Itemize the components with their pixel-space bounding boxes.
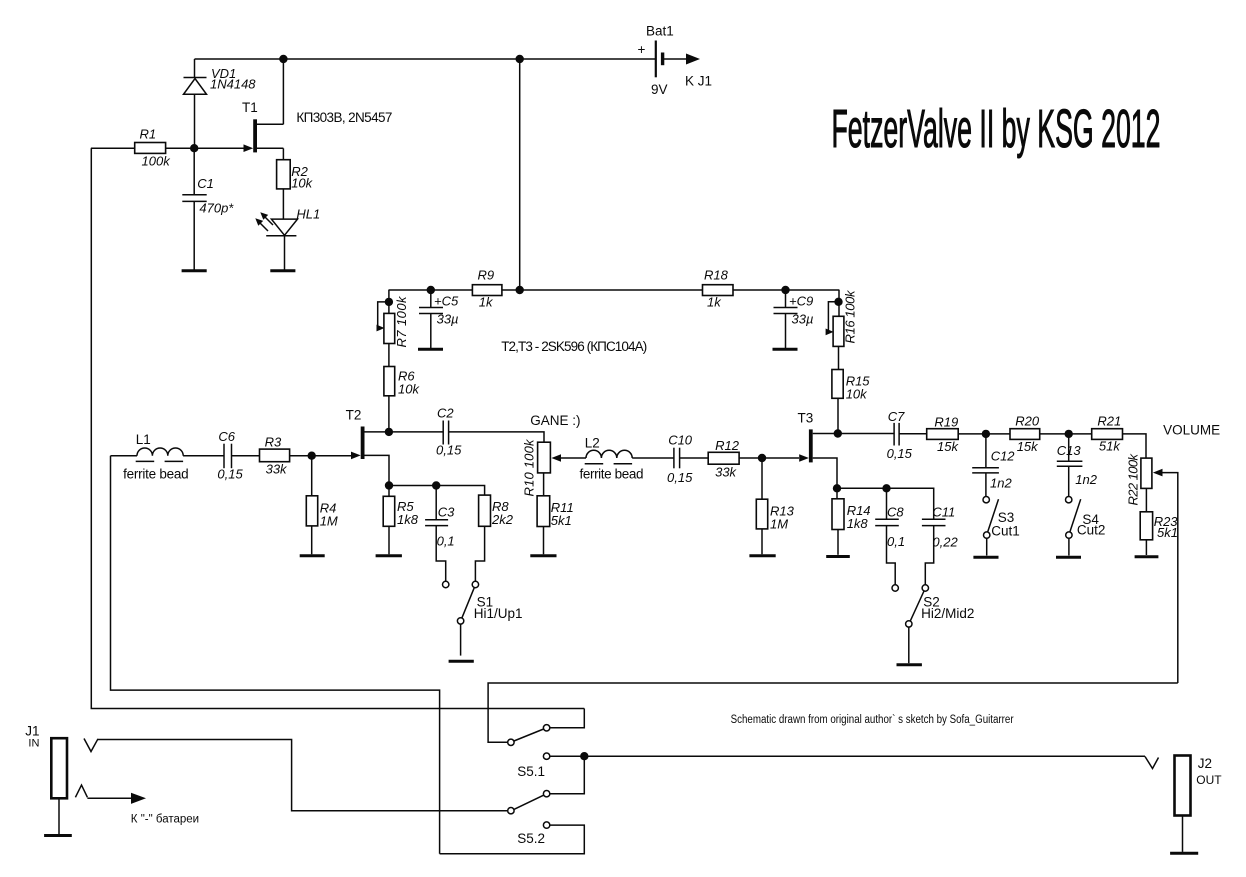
svg-text:HL1: HL1 [296, 207, 320, 222]
svg-text:0,22: 0,22 [932, 535, 958, 550]
ground below R23 [1135, 555, 1159, 558]
resistor R13 1M [756, 458, 794, 554]
svg-text:0,15: 0,15 [887, 446, 913, 461]
wire T3 source row y=488.3 [837, 488, 934, 519]
ground below R4 [300, 554, 325, 557]
wire J1 tip to S5.2 [98, 740, 508, 811]
svg-text:FetzerValve II by KSG 2012: FetzerValve II by KSG 2012 [832, 99, 1161, 159]
capacitor C1 470p* [182, 148, 234, 270]
svg-text:L1: L1 [136, 432, 151, 447]
svg-text:C7: C7 [888, 409, 905, 424]
node junction T1 drain on top rail [279, 55, 287, 63]
switch S2 Hi2/Mid2 [892, 585, 974, 663]
capacitor C5 33u polar [419, 286, 459, 348]
svg-text:R22 100k: R22 100k [1126, 453, 1141, 506]
switch S5.1 [508, 709, 585, 797]
ground below S1 [449, 660, 474, 663]
switch S5.2 [440, 795, 585, 854]
ground below R5 [376, 554, 402, 557]
svg-text:C8: C8 [887, 505, 904, 520]
svg-text:R18: R18 [704, 268, 729, 283]
wire input line to L1 [111, 455, 138, 457]
node junction R12/R13/gate [758, 454, 766, 462]
node junction R7 hook [385, 298, 393, 306]
svg-text:470p*: 470p* [199, 201, 234, 216]
svg-text:1n2: 1n2 [990, 475, 1012, 490]
svg-text:R3: R3 [265, 435, 282, 450]
svg-text:5k1: 5k1 [1157, 525, 1178, 540]
svg-text:9V: 9V [651, 82, 668, 97]
svg-text:R21: R21 [1097, 414, 1121, 429]
capacitor C13 1n2 [1057, 434, 1098, 497]
svg-text:2k2: 2k2 [491, 512, 514, 527]
resistor R9 1k [472, 268, 502, 310]
svg-text:0,15: 0,15 [667, 470, 693, 485]
svg-text:1k: 1k [707, 295, 722, 310]
resistor R19 15k [927, 415, 960, 455]
transistor T3 JFET [798, 411, 895, 489]
svg-text:33µ: 33µ [437, 312, 459, 327]
node junction R6/drain [385, 428, 393, 436]
node junction C12 [982, 430, 990, 438]
inductor L1 ferrite bead [123, 432, 189, 482]
svg-text:Bat1: Bat1 [646, 24, 674, 39]
svg-text:R10 100k: R10 100k [522, 438, 537, 497]
wire R21 to R22 [1123, 434, 1147, 458]
wire top power rail y=59 [195, 58, 656, 60]
wire volume wiper run y=683 to S5.1 [488, 683, 1178, 742]
wire T2 source row y=485.5 [389, 486, 485, 496]
svg-text:C2: C2 [437, 406, 454, 421]
jack J1 IN [25, 724, 98, 834]
wire R2 to HL1 [282, 189, 284, 219]
svg-text:1N4148: 1N4148 [210, 77, 256, 92]
ground below C9 [773, 348, 798, 351]
node junction C8 top [882, 484, 890, 492]
svg-text:K J1: K J1 [685, 74, 712, 89]
svg-text:Hi2/Mid2: Hi2/Mid2 [921, 606, 974, 621]
svg-text:C10: C10 [668, 432, 693, 447]
node junction C3 top [432, 481, 440, 489]
svg-text:R9: R9 [478, 268, 495, 283]
svg-text:C6: C6 [218, 429, 235, 444]
capacitor C8 0,1 [875, 488, 905, 585]
svg-text:Cut2: Cut2 [1077, 523, 1106, 538]
wire battery output arrow to K J1 [664, 54, 712, 89]
svg-text:T2: T2 [346, 407, 362, 422]
resistor R6 10k [384, 344, 421, 432]
svg-text:10k: 10k [398, 382, 420, 397]
capacitor C10 0,15 [632, 432, 708, 485]
resistor R2 10k [277, 160, 314, 191]
ground below R14 [826, 555, 850, 558]
node junction R1/C1/gate [190, 144, 198, 152]
resistor R15 10k [832, 346, 870, 433]
svg-text:33k: 33k [266, 462, 288, 477]
wire J1 ring to battery minus arrow [87, 793, 199, 826]
node junction C13 [1065, 430, 1073, 438]
svg-text:51k: 51k [1099, 439, 1121, 454]
svg-text:S5.2: S5.2 [517, 831, 545, 846]
transistor T2 JFET [346, 407, 444, 485]
resistor R20 15k [1010, 414, 1040, 454]
svg-text:+C5: +C5 [434, 294, 459, 309]
svg-text:R12: R12 [715, 438, 740, 453]
svg-text:L2: L2 [585, 436, 600, 451]
capacitor C3 0,1 [425, 486, 455, 582]
resistor R3 33k [260, 435, 290, 477]
jack J2 OUT [1145, 756, 1222, 852]
node junction R16 hook [834, 298, 842, 306]
svg-text:C11: C11 [932, 505, 955, 520]
resistor R1 100k [91, 127, 171, 169]
svg-text:+C9: +C9 [789, 294, 813, 309]
wire R12 to T3 gate [739, 457, 799, 459]
svg-text:100k: 100k [142, 154, 172, 169]
resistor R12 33k [708, 438, 740, 479]
wire input vertical and y=690 run [111, 456, 440, 854]
ground below C1 [182, 269, 207, 272]
ground below S3 [973, 556, 998, 559]
node junction source/R5 [385, 481, 393, 489]
wire R1 feedback vertical x=91.3 down to S5 area [91, 148, 584, 708]
transistor T1 JFET [242, 59, 283, 160]
svg-text:VOLUME: VOLUME [1163, 423, 1220, 438]
resistor R11 5k1 [537, 473, 574, 554]
svg-text:Cut1: Cut1 [991, 524, 1020, 539]
svg-text:C12: C12 [991, 449, 1016, 464]
wire second rail y=290 [389, 289, 840, 291]
capacitor C9 33u polar [774, 286, 814, 348]
svg-text:33µ: 33µ [792, 312, 814, 327]
resistor R14 1k8 [832, 488, 871, 555]
node junction S5.1 common [580, 752, 588, 760]
wire R1 to T1 gate [166, 147, 247, 149]
resistor R8 2k2 [475, 495, 513, 581]
node junction R15/drain [834, 429, 842, 437]
wire rail left bend down to R7 [388, 290, 390, 313]
svg-text:R16 100k: R16 100k [843, 289, 858, 344]
ground below J1 [44, 834, 72, 837]
svg-text:+: + [638, 42, 646, 57]
capacitor C2 0,15 [436, 406, 544, 458]
svg-text:T3: T3 [798, 411, 814, 426]
ground below R13 [749, 554, 775, 557]
svg-text:C1: C1 [197, 176, 214, 191]
ground below R11 [530, 554, 556, 557]
node junction rail drop on second rail [516, 286, 524, 294]
switch S4 Cut2 [1066, 497, 1106, 556]
svg-text:IN: IN [28, 738, 39, 750]
capacitor C11 0,22 [922, 505, 959, 585]
resistor R4 1M [306, 456, 338, 555]
svg-text:1n2: 1n2 [1075, 472, 1097, 487]
capacitor C7 0,15 [887, 409, 927, 461]
svg-text:33k: 33k [715, 464, 737, 479]
svg-text:Schematic drawn from original: Schematic drawn from original author` s … [731, 714, 1014, 726]
svg-text:C13: C13 [1057, 443, 1082, 458]
resistor R23 5k1 [1140, 488, 1178, 555]
svg-text:0,1: 0,1 [887, 534, 905, 549]
wire rail right bend down to R16 [838, 290, 840, 316]
switch S1 Hi1/Up1 [443, 581, 523, 655]
potentiometer R7 100k [377, 295, 410, 348]
svg-text:S5.1: S5.1 [517, 764, 545, 779]
node junction rail drop on top rail [516, 55, 524, 63]
ground below S4 [1056, 556, 1081, 559]
svg-text:1k8: 1k8 [847, 516, 869, 531]
svg-text:15k: 15k [937, 439, 959, 454]
ground below C5 [418, 348, 443, 351]
inductor L2 ferrite bead [580, 436, 644, 482]
svg-text:T1: T1 [242, 100, 258, 115]
svg-text:J2: J2 [1198, 756, 1212, 771]
potentiometer R10 100k [522, 438, 587, 497]
wire drop from top rail to second rail [519, 59, 521, 290]
svg-text:R20: R20 [1015, 414, 1040, 429]
svg-text:КП303В, 2N5457: КП303В, 2N5457 [296, 110, 392, 125]
svg-text:0,15: 0,15 [217, 467, 243, 482]
svg-text:ferrite bead: ferrite bead [123, 467, 189, 482]
svg-text:ferrite bead: ferrite bead [580, 467, 644, 482]
capacitor C6 0,15 [183, 429, 259, 482]
svg-text:C3: C3 [438, 505, 455, 520]
svg-text:1k8: 1k8 [397, 512, 419, 527]
svg-text:5k1: 5k1 [551, 513, 572, 528]
svg-text:10k: 10k [846, 387, 868, 402]
ground below HL1 [270, 269, 295, 272]
wire output line to J2 [584, 755, 1145, 757]
svg-text:15k: 15k [1017, 439, 1039, 454]
svg-text:R1: R1 [140, 127, 157, 142]
potentiometer R22 100k [1126, 453, 1178, 684]
svg-text:J1: J1 [25, 724, 39, 739]
svg-text:К "-" батареи: К "-" батареи [131, 814, 199, 826]
svg-text:R19: R19 [934, 415, 958, 430]
capacitor C12 1n2 [972, 434, 1015, 497]
ground below S2 [897, 663, 922, 666]
resistor R5 1k8 [383, 486, 419, 555]
svg-text:OUT: OUT [1196, 773, 1222, 787]
svg-text:T2,T3 - 2SK596 (КПС104А): T2,T3 - 2SK596 (КПС104А) [501, 339, 647, 354]
node junction source/R14 [833, 484, 841, 492]
wire R3 to T2 gate [290, 455, 351, 457]
switch S3 Cut1 [983, 497, 1020, 556]
wire R19 to R20 [958, 433, 1010, 435]
ground below J2 [1170, 852, 1198, 855]
potentiometer R16 100k [826, 289, 858, 346]
svg-text:1M: 1M [770, 517, 788, 532]
LED HL1 [255, 207, 320, 270]
svg-text:R7 100k: R7 100k [394, 295, 409, 348]
diode VD1 1N4148 [184, 59, 257, 148]
resistor R21 51k [1092, 414, 1123, 454]
svg-text:Hi1/Up1: Hi1/Up1 [474, 606, 523, 621]
svg-text:1M: 1M [320, 514, 338, 529]
svg-text:1k: 1k [479, 295, 494, 310]
wire R20 to R21 [1040, 433, 1092, 435]
battery Bat1 [638, 24, 674, 98]
resistor R18 1k [703, 268, 734, 310]
svg-text:0,15: 0,15 [436, 443, 462, 458]
svg-text:GANE :): GANE :) [530, 413, 580, 428]
svg-text:0,1: 0,1 [437, 534, 455, 549]
svg-text:10k: 10k [291, 176, 313, 191]
node junction R3/R4/gate [308, 452, 316, 460]
